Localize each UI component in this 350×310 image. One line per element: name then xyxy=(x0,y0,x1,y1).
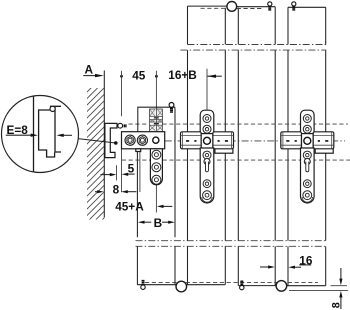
centerline hanger1 top xyxy=(206,69,208,111)
hanger2 keyhole xyxy=(304,159,310,165)
plate top xyxy=(200,110,214,136)
hex screw 2 xyxy=(137,135,147,145)
dimension A xyxy=(83,63,104,78)
hanger2 pad serrations xyxy=(286,140,328,142)
pad serrations xyxy=(186,140,228,142)
svg-text:8: 8 xyxy=(113,183,120,197)
dimension 45+A xyxy=(115,199,172,213)
keyhole xyxy=(204,159,210,165)
hanger2 ring E xyxy=(303,191,312,200)
dimension B xyxy=(138,216,175,230)
bottom screw 1 xyxy=(141,281,145,290)
dimension 8 rotated xyxy=(331,268,343,309)
rail lip line x139.9 xyxy=(139,152,141,193)
ring D xyxy=(203,180,211,188)
plate ring hole xyxy=(153,137,159,143)
door vertical x288 xyxy=(287,7,289,285)
door vertical x325.7 xyxy=(325,7,327,285)
profile rect xyxy=(215,148,233,153)
wall edge line xyxy=(103,71,105,218)
hanger2 ring B xyxy=(303,125,311,133)
door2 bottom edge mid xyxy=(238,285,276,287)
hanger2 profile rect xyxy=(315,148,333,153)
center block xyxy=(201,134,213,149)
bottom roller 2 xyxy=(276,281,287,292)
door vertical x225.3 xyxy=(224,8,226,285)
extension line 45 left lower xyxy=(121,149,123,192)
detail wall line xyxy=(33,97,35,172)
label E=8 xyxy=(6,123,72,137)
door vertical x238.3 xyxy=(237,8,239,286)
dimension 16 xyxy=(260,253,313,269)
door top edge 2 xyxy=(237,6,276,8)
break line bottom lower xyxy=(136,245,327,247)
ring E xyxy=(203,191,212,200)
pad midlines xyxy=(181,135,234,145)
top dashed line xyxy=(201,7,263,9)
hex screw 1 xyxy=(125,135,135,145)
hanger2 bar left pad xyxy=(281,132,302,149)
left strap ring 3 xyxy=(152,175,161,184)
rail lip line x137.4 xyxy=(136,152,138,285)
left strap ring 1 xyxy=(152,150,161,159)
top screw door2 left xyxy=(268,2,272,10)
leader dot xyxy=(114,141,118,145)
svg-text:5: 5 xyxy=(128,161,135,175)
break line top lower xyxy=(180,49,326,51)
centerline dashed y124 xyxy=(129,123,349,125)
floor line xyxy=(289,290,348,292)
mounting plate xyxy=(122,132,165,149)
door vertical x275.2 xyxy=(274,7,276,286)
dimension 45 xyxy=(120,68,158,82)
dimension 5 xyxy=(101,161,135,180)
door vertical x187.5 xyxy=(187,6,189,285)
svg-text:45+A: 45+A xyxy=(115,199,144,213)
bracket screw head xyxy=(118,123,123,128)
bottom dashed line xyxy=(145,281,318,283)
svg-text:8: 8 xyxy=(331,302,343,308)
door top edge 1 xyxy=(188,5,228,7)
bolt hole xyxy=(204,137,211,144)
dimension 16+B xyxy=(168,68,222,82)
bottom screw 2 xyxy=(240,281,244,290)
left strap xyxy=(150,149,162,185)
centerline rail xyxy=(155,71,157,213)
detail profile right piece xyxy=(50,106,61,152)
hanger2 ring C xyxy=(303,151,311,159)
hanger2 pad end caps xyxy=(283,132,332,149)
pad end caps xyxy=(183,132,232,149)
ring A xyxy=(203,115,211,123)
door2 bottom edge right xyxy=(287,285,326,287)
centerline dashed y160 xyxy=(122,159,350,161)
hanger 2 xyxy=(281,110,334,203)
wall bracket xyxy=(105,123,117,157)
centerline dashdot y141.7 xyxy=(165,140,345,142)
rail screw xyxy=(169,103,174,113)
detail circle xyxy=(2,96,79,173)
door vertical x175 xyxy=(174,109,176,285)
top rail housing xyxy=(138,107,175,132)
hanger2 plate top xyxy=(301,110,315,136)
svg-text:16+B: 16+B xyxy=(168,68,197,82)
strap xyxy=(200,148,214,203)
plate lip tab xyxy=(136,149,141,152)
detail profile left piece xyxy=(39,110,55,157)
wall hatching xyxy=(0,80,242,225)
bar left pad xyxy=(181,132,202,149)
hanger2 ring A xyxy=(303,115,311,123)
detail roller xyxy=(50,106,55,111)
door1 bottom edge xyxy=(137,284,225,286)
break line top upper xyxy=(188,44,327,46)
bracket screw shank xyxy=(124,124,126,127)
dimension 8 xyxy=(95,183,136,197)
svg-text:B: B xyxy=(154,216,163,230)
bar right pad xyxy=(213,132,234,149)
left strap ring 2 xyxy=(152,163,161,172)
roller carriage xyxy=(149,109,163,132)
svg-text:A: A xyxy=(85,63,94,77)
hanger2 strap xyxy=(301,148,315,203)
hanger2 center block xyxy=(302,134,314,149)
leader line xyxy=(78,139,116,143)
break line bottom upper xyxy=(136,240,327,242)
hanger2 bolt hole xyxy=(304,137,311,144)
svg-text:45: 45 xyxy=(132,68,146,82)
top screw door2 right xyxy=(292,2,296,10)
ring C xyxy=(203,151,211,159)
hanger2 ring D xyxy=(303,180,311,188)
bottom edge extension xyxy=(331,285,348,287)
bottom roller 1 xyxy=(176,281,187,292)
hanger2 pad midlines xyxy=(281,135,334,145)
top roller xyxy=(227,2,237,12)
hanger2 bar right pad xyxy=(313,132,334,149)
hanger 1 xyxy=(181,110,234,203)
extension line 45 left upper xyxy=(121,71,123,117)
door top edge 3 xyxy=(288,6,326,8)
ring B xyxy=(203,125,211,133)
